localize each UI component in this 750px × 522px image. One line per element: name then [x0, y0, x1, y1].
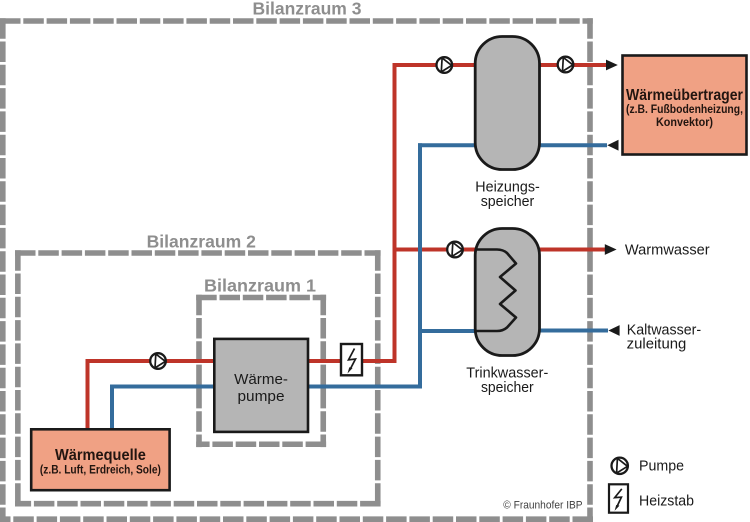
wire red heat source to heat pump — [88, 359, 217, 363]
svg-text:© Fraunhofer IBP: © Fraunhofer IBP — [503, 500, 582, 512]
svg-text:Bilanzraum 1: Bilanzraum 1 — [204, 275, 316, 295]
svg-text:Bilanzraum 2: Bilanzraum 2 — [147, 232, 257, 252]
legend pump symbol — [612, 458, 628, 474]
wire blue Kaltwasser inlet — [538, 329, 608, 333]
pump P1 on supply line — [437, 57, 453, 73]
Heizstab (heating rod) on heat pump output — [341, 344, 362, 375]
svg-text:Heizstab: Heizstab — [639, 493, 694, 509]
wire blue coil bottom link — [420, 329, 477, 333]
pump P3 on Trinkwasser branch — [447, 242, 463, 258]
Bilanzraum 2 dashed border — [15, 250, 381, 506]
svg-text:speicher: speicher — [481, 380, 534, 396]
wire blue drop into Waermequelle — [110, 385, 114, 432]
svg-text:Bilanzraum 3: Bilanzraum 3 — [253, 0, 362, 18]
pump P4 heat source circuit — [150, 353, 166, 369]
wire red top supply line to Heizungsspeicher — [395, 63, 478, 67]
legend Heizstab symbol — [609, 484, 628, 512]
heat exchanger coil inside Trinkwasserspeicher — [477, 250, 517, 332]
svg-text:Wärme-: Wärme- — [234, 371, 288, 388]
wire blue riser — [418, 143, 422, 388]
wire red heat pump output — [306, 359, 397, 363]
Bilanzraum 3 dashed border — [0, 18, 593, 522]
pump P2 before Waermeuebertrager — [558, 57, 574, 73]
svg-text:Wärmequelle: Wärmequelle — [55, 447, 146, 464]
svg-text:Warmwasser: Warmwasser — [625, 243, 710, 259]
svg-text:(z.B. Fußbodenheizung,: (z.B. Fußbodenheizung, — [626, 104, 743, 116]
wire red drop into Waermequelle — [86, 359, 90, 431]
wire red Warmwasser outlet — [538, 248, 605, 252]
svg-text:speicher: speicher — [481, 194, 535, 210]
Waermeuebertrager box — [623, 56, 747, 155]
Trinkwasserspeicher tank — [475, 229, 539, 356]
svg-text:Pumpe: Pumpe — [639, 459, 684, 475]
wire blue return from Waermeuebertrager — [538, 143, 607, 147]
arrow to Waermeuebertrager (red, right) — [606, 60, 618, 71]
svg-text:pumpe: pumpe — [238, 388, 285, 405]
wire red branch to Trinkwasserspeicher — [393, 248, 478, 252]
wire red riser — [393, 63, 397, 361]
svg-text:Wärmeübertrager: Wärmeübertrager — [626, 87, 743, 104]
svg-text:(z.B. Luft, Erdreich, Sole): (z.B. Luft, Erdreich, Sole) — [40, 464, 161, 476]
arrow Warmwasser (red, right) — [605, 244, 617, 255]
Heizungsspeicher tank — [475, 37, 539, 170]
arrow from Waermeuebertrager (blue return, left) — [607, 140, 618, 151]
Waermepumpe box — [214, 339, 308, 432]
wire red Heizungsspeicher to Waermeuebertrager — [538, 63, 607, 67]
svg-text:zuleitung: zuleitung — [627, 337, 687, 353]
arrow Kaltwasser (blue, left) — [608, 325, 619, 336]
wire blue Heizungsspeicher bottom to riser — [418, 143, 477, 147]
Waermequelle box — [31, 429, 169, 490]
Bilanzraum 1 dashed border — [196, 295, 326, 447]
svg-text:Konvektor): Konvektor) — [656, 117, 713, 129]
wire blue heat pump to heat source — [112, 385, 216, 389]
wire blue return to heat pump — [306, 385, 422, 389]
